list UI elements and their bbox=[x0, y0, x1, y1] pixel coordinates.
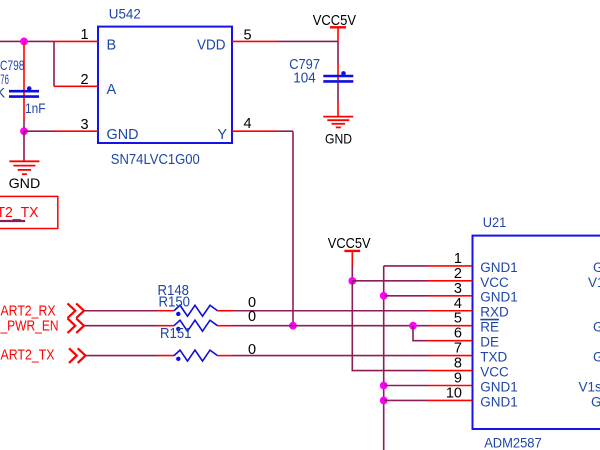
wire EN row to RE pin bbox=[233, 325, 428, 327]
svg-text:VCC: VCC bbox=[480, 364, 509, 379]
node Y joins RE row bbox=[289, 322, 297, 330]
svg-text:V1so: V1so bbox=[588, 275, 600, 290]
pin 4 RXD bbox=[428, 310, 473, 312]
svg-text:_PWR_EN: _PWR_EN bbox=[0, 318, 58, 334]
svg-text:1: 1 bbox=[80, 27, 88, 43]
ground symbol left bbox=[9, 160, 39, 162]
svg-text:GND: GND bbox=[9, 175, 41, 191]
svg-text:GND1: GND1 bbox=[480, 379, 518, 394]
wire GND1 vertical bbox=[383, 266, 385, 450]
pin 9 GND1 bbox=[428, 385, 473, 387]
svg-text:0: 0 bbox=[248, 309, 256, 325]
wire GND1 to pin 1 bbox=[384, 265, 428, 267]
svg-text:7: 7 bbox=[454, 341, 462, 357]
net label box UART2_TX bbox=[0, 196, 58, 228]
node GND1 pin9 bbox=[380, 382, 388, 390]
svg-text:GND1: GND1 bbox=[480, 260, 518, 275]
pin 3 GND1 bbox=[428, 295, 473, 297]
wire stub under label bbox=[0, 220, 25, 222]
wire RE to DE bbox=[413, 326, 428, 341]
svg-text:VDD: VDD bbox=[197, 37, 226, 53]
svg-text:TXD: TXD bbox=[480, 350, 507, 365]
svg-text:2: 2 bbox=[454, 266, 462, 282]
svg-text:GND1: GND1 bbox=[480, 290, 518, 305]
svg-text:GND2: GND2 bbox=[591, 394, 600, 409]
svg-text:T2_TX: T2_TX bbox=[0, 204, 39, 221]
svg-text:9: 9 bbox=[454, 371, 462, 387]
gate U542 body bbox=[98, 27, 232, 143]
wire GND1 to pin 10 bbox=[384, 399, 428, 401]
svg-text:5: 5 bbox=[454, 311, 462, 327]
resistor R148 bbox=[158, 310, 175, 312]
wire TX row left bbox=[86, 355, 158, 357]
pin 1 B bbox=[54, 40, 98, 42]
wire down to ground bbox=[23, 131, 25, 160]
svg-text:3: 3 bbox=[454, 281, 462, 297]
svg-text:R151: R151 bbox=[160, 326, 192, 342]
pin 7 TXD bbox=[428, 355, 473, 357]
svg-text:R150: R150 bbox=[159, 295, 191, 311]
wire GND1 to pin 9 bbox=[384, 385, 428, 387]
wire VCC5V down to C797 bbox=[337, 41, 339, 64]
wire VCC vertical to pin 8 bbox=[352, 281, 427, 371]
wire to U542 GND pin bbox=[24, 130, 54, 132]
svg-text:ART2_RX: ART2_RX bbox=[1, 304, 56, 320]
IC U21 body bbox=[473, 236, 600, 429]
svg-text:V1so: V1so bbox=[579, 379, 600, 394]
svg-text:B: B bbox=[107, 37, 117, 53]
wire EN row left bbox=[85, 325, 158, 327]
svg-text:ART2_TX: ART2_TX bbox=[1, 347, 55, 363]
svg-text:Y: Y bbox=[217, 127, 227, 143]
wire C798 top lead bbox=[23, 41, 25, 95]
svg-text:4: 4 bbox=[454, 296, 462, 312]
pin 5 RE bbox=[428, 325, 473, 327]
pin 2 A bbox=[54, 85, 98, 87]
svg-text:GND2: GND2 bbox=[593, 260, 600, 275]
node junction C798 top bbox=[20, 38, 28, 46]
svg-text:10: 10 bbox=[446, 385, 462, 401]
svg-text:8: 8 bbox=[454, 356, 462, 372]
capacitor C798 bbox=[9, 90, 39, 93]
svg-text:5: 5 bbox=[244, 27, 252, 43]
wire RX row left bbox=[85, 310, 158, 312]
svg-text:4: 4 bbox=[244, 116, 252, 132]
svg-text:GND: GND bbox=[107, 127, 139, 143]
svg-text:3: 3 bbox=[80, 117, 88, 133]
wire Y vertical down bbox=[292, 131, 294, 326]
wire RX row to RXD pin bbox=[233, 310, 428, 312]
svg-text:2: 2 bbox=[80, 72, 88, 88]
svg-text:K: K bbox=[0, 85, 6, 101]
svg-text:ADM2587: ADM2587 bbox=[484, 435, 542, 450]
pin 1 GND1 bbox=[428, 265, 473, 267]
node GND1 pin10 bbox=[380, 397, 388, 405]
svg-text:GND2: GND2 bbox=[593, 350, 600, 365]
svg-text:DE: DE bbox=[480, 335, 499, 350]
svg-text:RE: RE bbox=[480, 320, 499, 335]
wire jog B-row down to A pin bbox=[53, 41, 55, 86]
pin 3 GND bbox=[54, 130, 98, 132]
svg-text:6: 6 bbox=[454, 326, 462, 342]
svg-text:U542: U542 bbox=[109, 5, 141, 21]
resistor R151 bbox=[158, 355, 175, 357]
ground symbol middle bbox=[323, 116, 353, 118]
capacitor C797 bbox=[323, 75, 353, 78]
wire TX row to TXD pin bbox=[233, 355, 428, 357]
wire VDD to VCC5V bbox=[278, 40, 338, 42]
svg-text:VCC: VCC bbox=[480, 275, 509, 290]
wire VCC down to node bbox=[351, 265, 353, 281]
svg-text:1: 1 bbox=[454, 251, 462, 267]
wire C798 bottom lead bbox=[23, 98, 25, 119]
pin 6 DE bbox=[428, 340, 473, 342]
pin 4 Y bbox=[232, 130, 278, 132]
wire C797 bottom lead bbox=[337, 83, 339, 101]
wire VCC to pin 2 bbox=[352, 280, 427, 282]
svg-text:104: 104 bbox=[293, 71, 316, 87]
node junction GND row bbox=[20, 127, 28, 135]
svg-text:A: A bbox=[107, 82, 117, 98]
svg-text:VCC5V: VCC5V bbox=[328, 235, 371, 252]
svg-text:GND1: GND1 bbox=[480, 394, 518, 409]
node RE-DE junction bbox=[409, 322, 417, 330]
pin 10 GND1 bbox=[428, 399, 473, 401]
wire Y output to corner bbox=[278, 130, 293, 132]
pin 8 VCC bbox=[428, 370, 473, 372]
svg-text:1nF: 1nF bbox=[25, 100, 46, 116]
wire GND1 to pin 3 bbox=[384, 295, 428, 297]
node VCC junction bbox=[348, 277, 356, 285]
pin 2 VCC bbox=[428, 280, 473, 282]
svg-text:GND: GND bbox=[325, 130, 352, 146]
pin 5 VDD bbox=[232, 40, 278, 42]
svg-text:GND2: GND2 bbox=[593, 320, 600, 335]
svg-text:U21: U21 bbox=[483, 214, 507, 230]
wire net-B top-left horizontal bbox=[0, 40, 54, 42]
resistor R150 bbox=[158, 325, 175, 327]
svg-text:RXD: RXD bbox=[480, 305, 509, 320]
svg-text:SN74LVC1G00: SN74LVC1G00 bbox=[111, 152, 200, 168]
node GND1 pin3 bbox=[380, 292, 388, 300]
